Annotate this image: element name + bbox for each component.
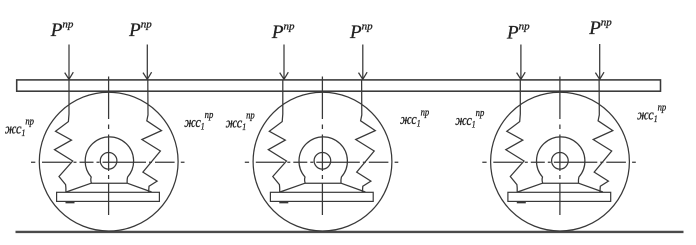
force arrow P3 [280, 45, 289, 80]
spring right W1 [142, 80, 162, 192]
vertical centerline W1 [108, 77, 110, 216]
wheel W1 [39, 92, 178, 231]
force arrow P2 [143, 45, 152, 80]
saddle right shoulder W1 [127, 183, 151, 192]
equalizer bar W1 [57, 192, 160, 201]
wheelset 3 [482, 77, 636, 232]
weld mark W1 [66, 201, 75, 203]
force arrow P6 [595, 44, 604, 79]
force arrow P1 [65, 45, 74, 80]
spring left W1 [55, 80, 73, 192]
saddle left shoulder W1 [66, 183, 91, 192]
wheelset 1 [31, 77, 185, 232]
axle journal W1 [100, 153, 117, 170]
wheelset 2 [245, 77, 398, 232]
force arrow P5 [517, 45, 526, 80]
frame beam [17, 80, 661, 91]
axlebox seat chord W1 [91, 182, 127, 184]
force arrow P4 [359, 45, 368, 80]
axlebox housing W1 [85, 137, 133, 183]
ground [16, 231, 684, 233]
horizontal centerline W1 [31, 161, 185, 163]
